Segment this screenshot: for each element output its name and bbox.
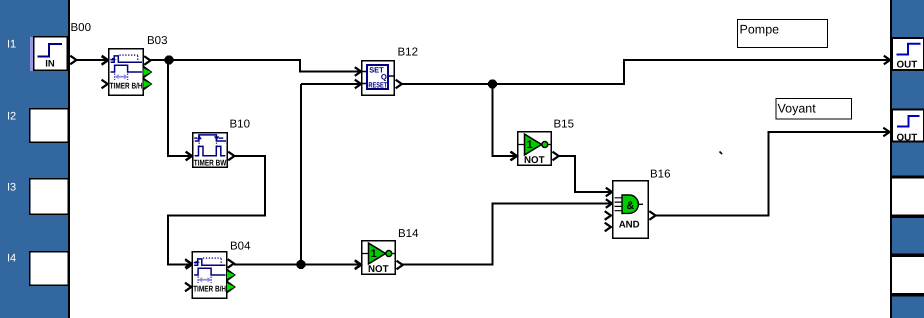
svg-text:Voyant: Voyant (778, 102, 817, 116)
svg-text:B16: B16 (650, 169, 670, 181)
svg-text:Pompe: Pompe (740, 23, 780, 37)
svg-text:OUT: OUT (897, 60, 918, 71)
svg-text:I2: I2 (7, 111, 16, 123)
svg-text:OUT: OUT (897, 133, 918, 144)
svg-text:I1: I1 (7, 39, 16, 51)
svg-text:RESET: RESET (368, 81, 387, 90)
svg-text:I3: I3 (7, 182, 16, 194)
svg-text:B00: B00 (71, 22, 91, 34)
svg-text:B15: B15 (554, 119, 574, 131)
svg-text:AND: AND (619, 220, 640, 231)
svg-text:B04: B04 (230, 241, 251, 253)
svg-text:&: & (626, 200, 634, 212)
svg-text:TIMER BW: TIMER BW (194, 158, 227, 168)
svg-text:B03: B03 (147, 35, 167, 47)
svg-text:I4: I4 (7, 253, 16, 265)
svg-text:IN: IN (45, 59, 55, 70)
svg-text:B12: B12 (398, 47, 418, 59)
svg-text:B14: B14 (398, 228, 419, 240)
svg-text:B10: B10 (230, 119, 250, 131)
